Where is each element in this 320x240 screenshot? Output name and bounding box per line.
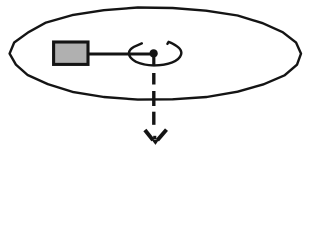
axis stub below pivot	[152, 54, 155, 66]
dashed axis: dash 2	[152, 91, 155, 106]
tiny dash inside arrow notch	[153, 136, 156, 139]
arrowhead tip	[152, 140, 159, 145]
gray block mass	[54, 42, 88, 64]
arrowhead V	[145, 130, 153, 140]
dashed axis: dash 1	[152, 73, 155, 85]
dashed axis: dash 3	[152, 112, 155, 125]
arrowhead right arm	[157, 130, 166, 141]
pivot dot	[149, 49, 157, 57]
rod from block to pivot	[89, 52, 152, 55]
big ellipse (rotation plane)	[10, 8, 301, 100]
small rotation ellipse (open with hook arrow)	[129, 42, 181, 66]
